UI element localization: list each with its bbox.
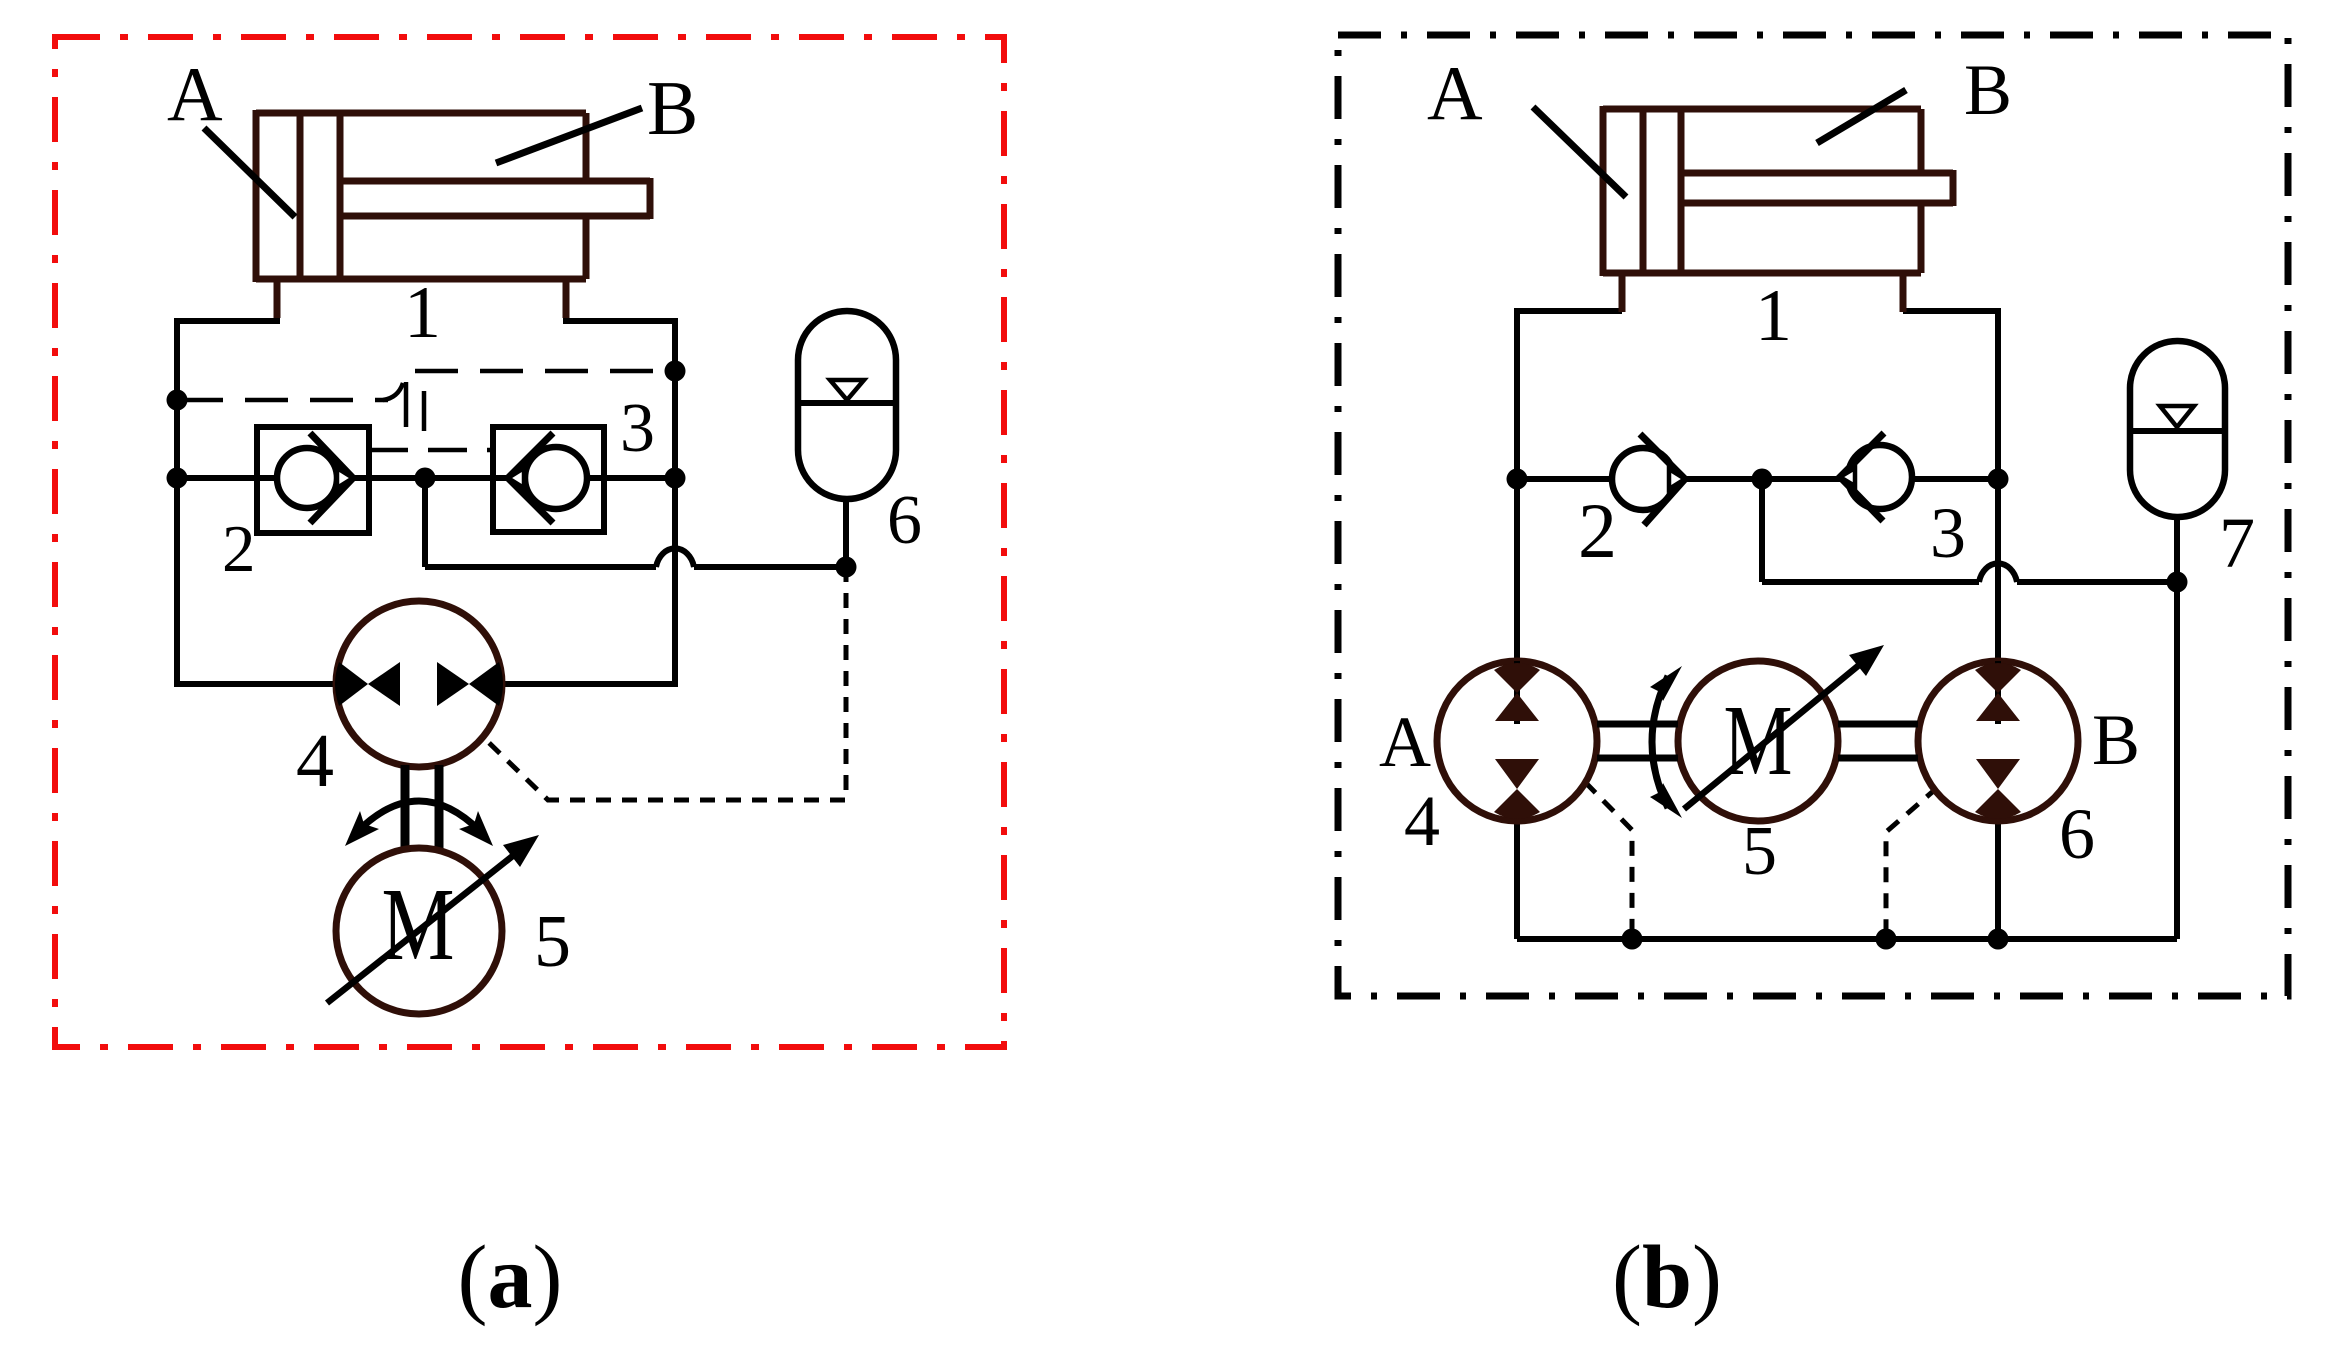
svg-text:5: 5 bbox=[534, 901, 571, 983]
svg-text:B: B bbox=[2092, 700, 2140, 780]
svg-text:7: 7 bbox=[2219, 503, 2255, 583]
svg-text:A: A bbox=[1427, 50, 1483, 136]
svg-text:(a): (a) bbox=[458, 1228, 563, 1327]
svg-text:A: A bbox=[1379, 702, 1431, 782]
svg-text:M: M bbox=[382, 867, 455, 982]
svg-text:3: 3 bbox=[1930, 493, 1966, 573]
svg-text:3: 3 bbox=[620, 390, 655, 467]
svg-text:1: 1 bbox=[1755, 275, 1792, 357]
svg-text:B: B bbox=[1964, 50, 2012, 130]
svg-text:A: A bbox=[167, 51, 223, 137]
svg-text:M: M bbox=[1724, 684, 1793, 796]
svg-text:6: 6 bbox=[2059, 794, 2095, 874]
svg-text:2: 2 bbox=[1578, 487, 1617, 574]
svg-text:4: 4 bbox=[1404, 781, 1440, 861]
svg-text:4: 4 bbox=[296, 719, 334, 803]
svg-text:2: 2 bbox=[222, 512, 256, 586]
svg-text:(b): (b) bbox=[1612, 1228, 1722, 1327]
svg-text:B: B bbox=[647, 65, 698, 151]
svg-text:1: 1 bbox=[404, 272, 441, 354]
svg-text:6: 6 bbox=[887, 482, 922, 559]
svg-text:5: 5 bbox=[1742, 813, 1777, 890]
